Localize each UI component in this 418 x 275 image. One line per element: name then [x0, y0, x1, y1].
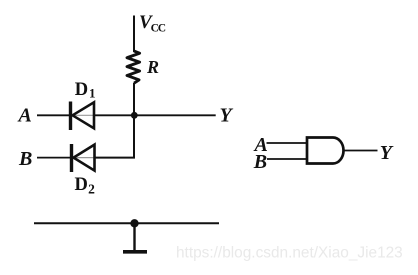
- svg-text:https://blog.csdn.net/Xiao_Jie: https://blog.csdn.net/Xiao_Jie123: [176, 244, 403, 261]
- power Vcc label: [139, 12, 166, 35]
- node junction dot: [131, 112, 138, 119]
- wire input B: [37, 157, 70, 159]
- svg-text:Y: Y: [220, 104, 234, 126]
- svg-text:A: A: [17, 104, 32, 126]
- diode D2: [72, 144, 95, 172]
- wire Vcc vertical: [133, 16, 135, 53]
- wire gate input A: [267, 142, 308, 144]
- wire through diode D2: [73, 157, 95, 159]
- wire input A: [37, 114, 69, 116]
- AND gate U1: [307, 138, 344, 164]
- svg-text:CC: CC: [151, 23, 166, 35]
- svg-text:Y: Y: [380, 142, 394, 164]
- ground: [123, 223, 147, 252]
- resistor R: [127, 51, 140, 83]
- wire through diode D1: [72, 114, 94, 116]
- wire gate input B: [267, 158, 307, 160]
- bottom rail wire: [34, 222, 219, 224]
- wire branch B to node: [95, 115, 135, 157]
- wire node to Y: [94, 114, 216, 116]
- diode D1: [71, 102, 95, 131]
- svg-text:R: R: [146, 57, 159, 77]
- wire gate output: [344, 150, 378, 152]
- junction dot on rail: [130, 219, 138, 227]
- svg-text:B: B: [253, 151, 267, 173]
- svg-text:B: B: [18, 148, 32, 170]
- wire resistor to node: [133, 83, 135, 115]
